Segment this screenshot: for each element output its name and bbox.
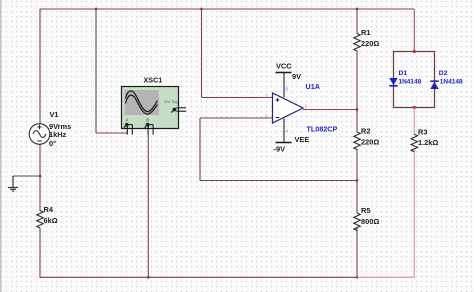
svg-text:-9V: -9V: [274, 145, 286, 154]
wire op-amp output: [303, 109, 357, 111]
svg-text:220Ω: 220Ω: [361, 39, 379, 48]
svg-text:TL082CP: TL082CP: [307, 125, 338, 134]
resistor R5: [354, 206, 380, 230]
svg-text:0°: 0°: [49, 139, 56, 148]
svg-text:R5: R5: [361, 206, 370, 215]
wire bottom rail: [40, 276, 357, 278]
wire diode box top stub: [413, 9, 415, 52]
node top rail / scope A junction: [95, 8, 98, 11]
wire scope B drop: [147, 134, 149, 277]
resistor R2: [354, 127, 380, 150]
node top rail / plus input junction: [200, 8, 203, 11]
svg-text:B: B: [146, 117, 149, 122]
svg-text:Ext Trig: Ext Trig: [165, 99, 178, 104]
svg-text:4: 4: [286, 129, 289, 134]
wire bottom rail right segment: [357, 276, 415, 278]
node diode box top: [413, 50, 416, 53]
wire diode branch rectangle: [394, 52, 435, 108]
svg-text:A: A: [126, 117, 129, 122]
diode D2: [430, 70, 463, 89]
resistor R4: [37, 205, 58, 228]
svg-text:D2: D2: [439, 70, 448, 77]
voltage source V1: [29, 110, 71, 148]
svg-text:220Ω: 220Ω: [361, 138, 379, 147]
svg-text:800Ω: 800Ω: [361, 217, 379, 226]
wire R4 to bottom rail: [39, 228, 41, 278]
svg-text:1N4148: 1N4148: [399, 79, 422, 86]
wire op-amp minus input feedback: [200, 118, 357, 181]
svg-text:R4: R4: [44, 205, 54, 214]
ground: [8, 176, 18, 191]
svg-text:2: 2: [265, 114, 268, 119]
wire V1 bottom to R4: [39, 144, 41, 211]
resistor R1: [354, 28, 380, 51]
svg-text:1: 1: [305, 104, 308, 109]
svg-text:R2: R2: [361, 127, 370, 136]
node feedback / R2-R5 junction: [356, 179, 359, 182]
wire V1 top drop: [39, 9, 41, 124]
svg-text:6kΩ: 6kΩ: [44, 216, 58, 225]
wire scope A drop: [96, 9, 128, 133]
svg-text:9V: 9V: [292, 72, 301, 81]
svg-text:1.2kΩ: 1.2kΩ: [418, 138, 438, 147]
svg-text:XSC1: XSC1: [144, 76, 163, 85]
svg-text:1N4148: 1N4148: [440, 79, 463, 86]
node diode box bottom: [413, 106, 416, 109]
svg-text:V1: V1: [50, 110, 59, 119]
diode D1: [389, 70, 421, 86]
wire diode box bottom to R3: [413, 108, 415, 135]
svg-text:R3: R3: [418, 128, 427, 137]
resistor R3: [411, 128, 438, 152]
wire R5 to bottom rail: [356, 228, 358, 278]
svg-text:1kHz: 1kHz: [49, 130, 67, 139]
wire R1 column top: [356, 9, 358, 34]
wire top rail: [40, 8, 414, 10]
svg-text:D1: D1: [399, 70, 408, 77]
node V1-ground junction: [39, 175, 42, 178]
node bottom rail / R5 junction: [356, 276, 359, 279]
wire R2 to R5: [356, 149, 358, 213]
node output / R1-R2 junction: [356, 108, 359, 111]
svg-text:3: 3: [265, 94, 268, 99]
svg-text:8: 8: [286, 87, 289, 92]
node top rail / R1 junction: [356, 8, 359, 11]
oscilloscope XSC1: [122, 76, 187, 135]
wire R1 to R2: [356, 51, 358, 133]
wire R3 to bottom rail: [413, 150, 415, 278]
svg-text:VCC: VCC: [276, 62, 292, 71]
svg-text:VEE: VEE: [295, 135, 310, 144]
wire ground tap: [13, 175, 40, 177]
svg-text:R1: R1: [361, 28, 370, 37]
node bottom rail / scope B junction: [147, 276, 150, 279]
op-amp U1A: [265, 62, 337, 154]
wire op-amp plus input drop: [202, 9, 273, 98]
svg-text:U1A: U1A: [306, 82, 320, 91]
